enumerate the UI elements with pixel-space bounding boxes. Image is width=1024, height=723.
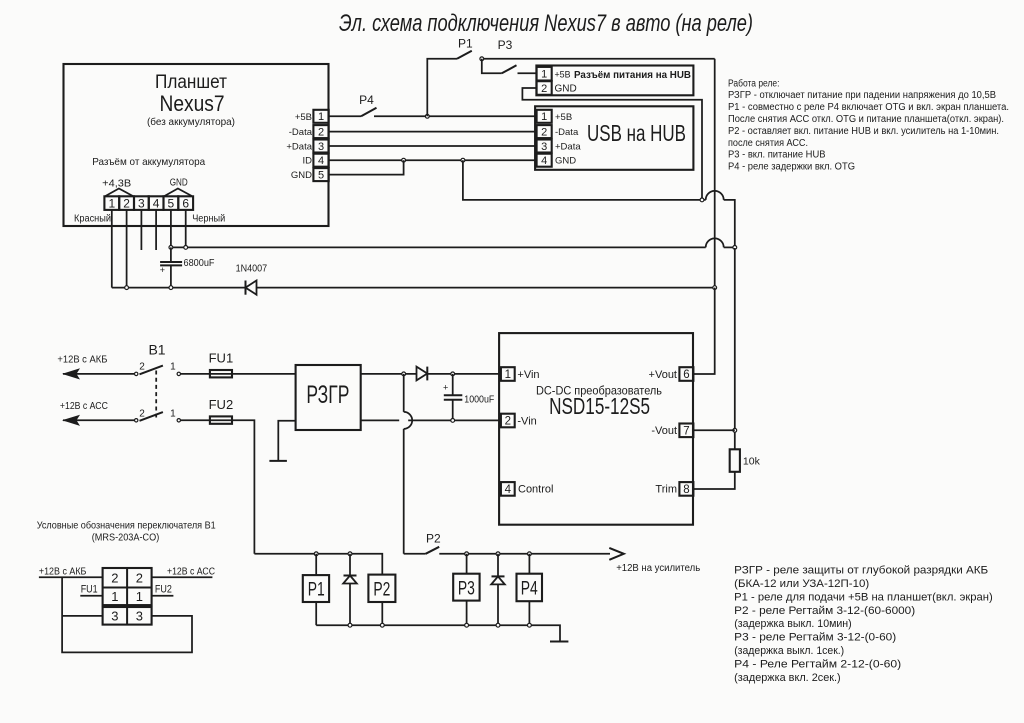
- hop ground link over right riser: [706, 191, 724, 200]
- junction P3 coil tap: [465, 552, 469, 556]
- svg-text:Разъём питания на HUB: Разъём питания на HUB: [574, 69, 691, 81]
- relay P4 box: [517, 574, 543, 602]
- wire legend left pin3 stub: [62, 615, 103, 617]
- svg-text:2: 2: [111, 571, 118, 586]
- junction plus bus / riser: [713, 286, 717, 290]
- svg-text:P3: P3: [498, 38, 513, 52]
- wire legend AKB top: [39, 576, 103, 578]
- svg-text:Черный: Черный: [192, 214, 225, 225]
- svg-text:Р3 - реле Регтайм 3-12-(0-60): Р3 - реле Регтайм 3-12-(0-60): [734, 632, 896, 644]
- wire tablet GND pin5: [329, 160, 404, 174]
- svg-text:1: 1: [170, 362, 176, 373]
- wire -Data row: [329, 131, 537, 133]
- DC-DC pin 8 box: [679, 482, 693, 496]
- svg-text:-Data: -Data: [555, 127, 579, 138]
- wire legend loop: [62, 577, 192, 652]
- junction cap2 plus: [451, 372, 455, 376]
- switch P2: [404, 547, 440, 554]
- wire +5B tablet to P4: [329, 115, 361, 117]
- svg-text:3: 3: [318, 141, 324, 153]
- switch P4 blade: [361, 108, 376, 117]
- wire battery minus bus: [171, 246, 706, 248]
- svg-text:+4,3В: +4,3В: [102, 179, 131, 190]
- wire -Vout to column: [693, 429, 734, 431]
- svg-text:РЗГР - отключает питание при п: РЗГР - отключает питание при падении нап…: [728, 90, 996, 101]
- node +12V ACC arrow: [62, 415, 134, 426]
- svg-text:6: 6: [182, 197, 189, 211]
- legend cell numbers: [111, 571, 143, 624]
- hop P2 branch over minus rail: [404, 412, 413, 429]
- svg-text:+12В с АСС: +12В с АСС: [60, 400, 108, 412]
- junction cap on plus bus: [169, 286, 173, 290]
- svg-text:1: 1: [108, 197, 115, 211]
- svg-text:3: 3: [541, 141, 547, 153]
- wire right riser top: [714, 59, 716, 288]
- svg-text:1: 1: [318, 111, 324, 123]
- wire P3 coil top: [466, 554, 468, 574]
- svg-text:P2: P2: [426, 531, 441, 545]
- svg-text:Р2 - оставляет вкл. питание HU: Р2 - оставляет вкл. питание HUB и вкл. у…: [728, 126, 999, 137]
- svg-text:1000uF: 1000uF: [464, 394, 494, 406]
- svg-text:1: 1: [111, 589, 118, 604]
- svg-text:Планшет: Планшет: [155, 72, 227, 93]
- svg-text:3: 3: [138, 197, 145, 211]
- tablet pin numbers: [318, 111, 324, 181]
- wire P2 switch to amp arrow: [439, 553, 610, 555]
- wire +Data row: [329, 145, 537, 147]
- svg-text:1: 1: [505, 369, 511, 381]
- wire RZGR minus rail: [361, 419, 400, 421]
- svg-text:После снятия АСС откл. OTG и п: После снятия АСС откл. OTG и питание пла…: [728, 114, 1004, 125]
- svg-text:Trim: Trim: [655, 483, 677, 495]
- svg-text:Р1 - реле для подачи +5В на пл: Р1 - реле для подачи +5В на планшет(вкл.…: [734, 591, 993, 603]
- svg-text:Control: Control: [518, 484, 553, 496]
- svg-text:GND: GND: [170, 178, 188, 189]
- DC-DC pin 6 box: [679, 367, 693, 381]
- svg-text:GND: GND: [291, 170, 312, 181]
- wire legend ACC top: [152, 576, 213, 578]
- junction D1 return: [348, 623, 352, 627]
- svg-text:FU1: FU1: [81, 584, 98, 596]
- switch B1: [135, 366, 181, 422]
- power connector box Разъём питания на HUB: [536, 66, 693, 96]
- junction ID / tablet GND: [402, 158, 406, 162]
- svg-text:B1: B1: [148, 342, 165, 358]
- wire RZGR out plus: [361, 373, 417, 375]
- svg-text:2: 2: [139, 408, 145, 419]
- svg-text:5: 5: [168, 197, 175, 211]
- svg-text:2: 2: [318, 127, 324, 139]
- resistor R1 10k: [730, 449, 740, 472]
- svg-text:+: +: [443, 383, 448, 393]
- svg-text:+12В с АКБ: +12В с АКБ: [57, 354, 107, 366]
- node +12V AKB arrow: [62, 368, 134, 379]
- wire P2 coil bottom: [381, 602, 383, 625]
- wire battery plus bus right: [257, 287, 715, 289]
- svg-text:2: 2: [541, 127, 547, 139]
- diode D1: [343, 554, 357, 625]
- svg-text:+Data: +Data: [286, 142, 312, 153]
- junction D2 return: [496, 623, 500, 627]
- svg-text:(задержка выкл. 1сек.): (задержка выкл. 1сек.): [734, 645, 844, 657]
- wire legend FU1 stub: [80, 595, 102, 597]
- svg-text:Красный: Красный: [74, 214, 111, 225]
- battery connector pin1 wire: [111, 210, 113, 288]
- wire P2 branch drop: [403, 374, 405, 554]
- DC-DC converter U2 box: [499, 333, 693, 525]
- wire ground link to down corner: [724, 200, 735, 248]
- svg-text:+5В: +5В: [555, 112, 572, 123]
- wire minus rail to -Vin: [408, 419, 501, 421]
- junction pin2 on plus bus: [125, 286, 129, 290]
- junction pin5 on minus bus: [169, 246, 173, 250]
- svg-text:после снятия АСС.: после снятия АСС.: [728, 138, 808, 149]
- diode D2: [491, 554, 505, 625]
- svg-text:(задержка выкл. 10мин): (задержка выкл. 10мин): [734, 618, 852, 630]
- svg-text:2: 2: [541, 83, 547, 95]
- svg-text:Работа реле:: Работа реле:: [728, 78, 780, 89]
- wire RZGR ground stub: [278, 421, 295, 461]
- battery connector pin4 stub: [155, 210, 157, 250]
- svg-text:4: 4: [541, 155, 547, 167]
- svg-text:+Data: +Data: [555, 142, 581, 153]
- wire B1 to FU2: [181, 419, 210, 421]
- svg-text:1: 1: [541, 69, 547, 81]
- fuse FU1: [210, 370, 232, 377]
- svg-text:(задержка вкл. 2сек.): (задержка вкл. 2сек.): [734, 672, 841, 684]
- battery connector pin numbers 1-6: [108, 197, 189, 211]
- svg-text:5: 5: [318, 170, 324, 182]
- tablet pin boxes 1-5: [313, 110, 328, 181]
- wire +5B P4 to HUB: [374, 115, 537, 117]
- battery connector pin2 wire: [126, 210, 128, 288]
- wire P3 to power connector: [518, 72, 537, 74]
- svg-text:2: 2: [136, 571, 143, 586]
- svg-text:-Vin: -Vin: [517, 415, 536, 427]
- svg-text:Разъём от аккумулятора: Разъём от аккумулятора: [92, 156, 205, 168]
- svg-text:-Vout: -Vout: [651, 425, 677, 437]
- USB HUB box: [535, 106, 693, 170]
- svg-text:GND: GND: [555, 84, 577, 95]
- svg-text:(БКА-12 или УЗА-12П-10): (БКА-12 или УЗА-12П-10): [734, 578, 869, 590]
- svg-text:1: 1: [541, 111, 547, 123]
- DC-DC pin 4 box: [501, 482, 515, 496]
- svg-text:+5В: +5В: [295, 112, 312, 123]
- svg-text:+: +: [160, 265, 165, 275]
- capacitor C2 1000uF: [443, 374, 462, 421]
- chevron pins 5-6: [165, 189, 192, 197]
- fuse FU2: [210, 416, 232, 423]
- junction power GND on ground link: [700, 198, 704, 202]
- battery connector pin3 stub: [140, 210, 142, 250]
- svg-text:+12В на усилитель: +12В на усилитель: [616, 563, 700, 574]
- USB HUB pin labels: [555, 112, 581, 167]
- svg-text:РЗГР - реле защиты от глубокой: РЗГР - реле защиты от глубокой разрядки …: [734, 565, 988, 577]
- wire power GND to right column: [522, 88, 702, 200]
- junction P4 coil tap: [528, 552, 532, 556]
- DC-DC pin numbers: [505, 369, 690, 496]
- svg-text:3: 3: [111, 609, 118, 624]
- svg-text:4: 4: [318, 155, 324, 167]
- wire P1 to right column: [480, 58, 715, 60]
- wire GND column lower to Trim: [693, 472, 734, 489]
- legend switch grid: [103, 568, 152, 625]
- note block relay types: [734, 565, 993, 685]
- battery connector pin6 wire: [185, 210, 187, 248]
- wire relay return rail: [316, 625, 560, 641]
- wire B1 to FU1: [181, 373, 210, 375]
- junction minus bus on GND column: [733, 246, 737, 250]
- diode VD1 1N4007: [246, 281, 257, 295]
- svg-text:4: 4: [153, 197, 160, 211]
- tablet pin labels: [286, 112, 312, 181]
- junction D1 tap: [348, 552, 352, 556]
- svg-text:P1: P1: [308, 580, 325, 601]
- wire GND column upper: [734, 248, 736, 449]
- svg-text:Р3 - вкл. питание HUB: Р3 - вкл. питание HUB: [728, 150, 826, 161]
- svg-text:1: 1: [136, 589, 143, 604]
- wire riser to P1: [427, 59, 457, 117]
- node +12V amp arrow: [609, 548, 624, 560]
- wire P1 coil bottom: [315, 602, 317, 625]
- svg-text:P2: P2: [373, 580, 390, 601]
- wire P4 coil top: [528, 554, 530, 574]
- svg-text:3: 3: [136, 609, 143, 624]
- svg-text:P4: P4: [521, 579, 538, 600]
- svg-text:Р1 - совместно с реле Р4 включ: Р1 - совместно с реле Р4 включает OTG и …: [728, 102, 1009, 113]
- svg-text:Эл. схема подключения Nexus7 в: Эл. схема подключения Nexus7 в авто (на …: [339, 10, 753, 37]
- svg-text:10k: 10k: [743, 456, 761, 468]
- relay P2 box: [368, 575, 395, 602]
- svg-text:2: 2: [505, 416, 511, 428]
- svg-text:GND: GND: [555, 156, 576, 167]
- junction +5B / P1 riser: [425, 114, 429, 118]
- ground RZGR: [269, 460, 287, 462]
- DC-DC pin 2 box: [501, 414, 515, 428]
- wire battery minus to GND column: [724, 246, 735, 248]
- svg-text:1N4007: 1N4007: [236, 263, 268, 275]
- battery connector X1 boxes: [104, 196, 193, 210]
- wire battery plus bus left: [112, 287, 246, 289]
- tablet U1 box: [64, 64, 329, 226]
- junction P3 tap: [480, 57, 484, 61]
- DC-DC pin 1 box: [501, 367, 515, 381]
- wire P3 branch: [482, 59, 502, 74]
- power connector pin numbers: [541, 69, 547, 95]
- svg-text:2: 2: [139, 362, 145, 373]
- junction P1 coil tap: [314, 552, 318, 556]
- relay P3 box: [453, 574, 479, 601]
- switch P3 blade: [502, 65, 517, 73]
- svg-text:Условные обозначения переключа: Условные обозначения переключателя В1: [37, 520, 216, 532]
- wire P4 coil bottom: [528, 601, 530, 625]
- svg-text:6800uF: 6800uF: [184, 257, 215, 269]
- svg-text:FU2: FU2: [209, 397, 234, 412]
- svg-text:Р4 - реле задержки вкл. OTG: Р4 - реле задержки вкл. OTG: [728, 162, 855, 173]
- junction P3 return: [465, 623, 469, 627]
- capacitor C1 6800uF: [160, 247, 182, 287]
- diode VD2: [417, 367, 428, 381]
- wire ID row: [329, 159, 537, 161]
- svg-text:Р2 - реле Регтайм 3-12-(60-600: Р2 - реле Регтайм 3-12-(60-6000): [734, 605, 915, 617]
- svg-text:+12В с АКБ: +12В с АКБ: [39, 566, 87, 577]
- relay module RZGR box: [296, 365, 361, 430]
- svg-text:7: 7: [683, 425, 689, 437]
- svg-text:(без аккумулятора): (без аккумулятора): [147, 116, 235, 128]
- svg-text:8: 8: [683, 484, 689, 496]
- relay P1 box: [303, 575, 329, 602]
- ground relay rail: [550, 641, 568, 643]
- wire P3 coil bottom: [466, 601, 468, 626]
- junction D2 tap: [496, 552, 500, 556]
- junction -Vout on GND column: [733, 428, 737, 432]
- wire FU2 to ACC drop: [232, 420, 254, 554]
- wire FU1 to RZGR: [232, 373, 296, 375]
- wire diode to +Vin: [427, 373, 501, 375]
- junction cap2 minus: [451, 419, 455, 423]
- svg-text:РЗГР: РЗГР: [306, 381, 349, 409]
- svg-text:FU1: FU1: [209, 351, 234, 366]
- chevron pins 1-2: [106, 189, 133, 197]
- power connector pin boxes: [537, 67, 552, 95]
- svg-text:P3: P3: [458, 579, 475, 600]
- junction pin6 on minus bus: [184, 246, 188, 250]
- svg-text:(MRS-203A-CO): (MRS-203A-CO): [92, 532, 160, 544]
- hop battery minus over right riser: [706, 238, 724, 247]
- junction P4 return: [528, 623, 532, 627]
- svg-text:+12В с АСС: +12В с АСС: [167, 566, 215, 577]
- svg-text:P1: P1: [458, 37, 473, 51]
- svg-text:6: 6: [683, 369, 689, 381]
- svg-text:+5В: +5В: [555, 70, 571, 81]
- svg-text:+Vin: +Vin: [517, 369, 539, 381]
- note block relay operation: [728, 78, 1009, 172]
- svg-text:P4: P4: [359, 93, 374, 107]
- wire ground link to right: [463, 160, 706, 200]
- svg-text:+Vout: +Vout: [649, 369, 677, 381]
- svg-text:FU2: FU2: [155, 584, 172, 596]
- svg-text:Nexus7: Nexus7: [160, 91, 225, 116]
- wire P1 coil top: [315, 554, 317, 575]
- wire relay bus left: [254, 554, 382, 575]
- junction RZGR out / P2 branch: [402, 372, 406, 376]
- battery connector pin5 wire: [170, 210, 172, 248]
- USB HUB pin boxes: [537, 110, 552, 167]
- svg-text:2: 2: [123, 197, 130, 211]
- svg-text:1: 1: [170, 408, 176, 419]
- svg-text:USB на HUB: USB на HUB: [587, 120, 686, 146]
- USB HUB pin numbers: [541, 111, 547, 167]
- svg-text:-Data: -Data: [289, 127, 313, 138]
- svg-text:4: 4: [505, 484, 512, 496]
- svg-text:ID: ID: [303, 156, 313, 167]
- wire riser to +Vout: [693, 288, 714, 374]
- junction P2 return: [380, 623, 384, 627]
- DC-DC pin 7 box: [679, 424, 693, 438]
- junction ID / ground link: [461, 158, 465, 162]
- svg-text:NSD15-12S5: NSD15-12S5: [549, 393, 650, 419]
- switch P1 blade: [457, 51, 472, 59]
- wire legend FU2 stub: [152, 595, 174, 597]
- svg-text:Р4 - Реле Регтайм 2-12-(0-60): Р4 - Реле Регтайм 2-12-(0-60): [734, 659, 901, 671]
